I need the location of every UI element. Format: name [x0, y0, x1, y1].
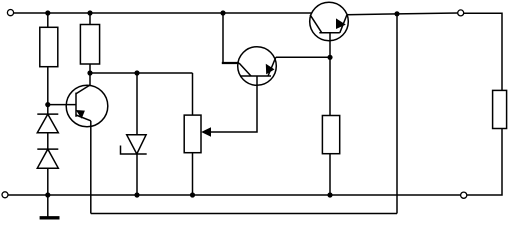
- wire R1 top lead: [47, 13, 49, 27]
- node zener top: [134, 70, 139, 75]
- wire R3 bottom lead: [192, 153, 194, 195]
- wire wiper to Q2 base: [207, 76, 257, 132]
- wire terminal to right edge: [464, 13, 502, 90]
- wire R2 bottom lead: [89, 64, 91, 73]
- wire feedback bottom horizontal: [91, 213, 397, 215]
- wire top rail left segment: [14, 12, 312, 14]
- wire R1 bottom lead: [47, 67, 49, 114]
- node feedback at top rail: [394, 11, 399, 16]
- Q2 base bar: [240, 75, 271, 77]
- wire reference node horizontal: [90, 72, 193, 74]
- wire zener bottom lead: [136, 154, 138, 195]
- Q3 emitter diagonal: [340, 15, 347, 33]
- resistor R1: [40, 27, 58, 66]
- node base of Q1 / R1 / diodes junction: [45, 102, 50, 107]
- terminal OUT- bottom-right: [461, 192, 467, 198]
- node Q2 emitter / Q3 base / R4: [327, 55, 332, 60]
- wire Q1 emitter down: [90, 121, 92, 214]
- diode D1 triangle: [37, 114, 58, 133]
- Q3 emitter arrow: [336, 18, 346, 29]
- wire Q2 collector to top rail: [223, 13, 239, 63]
- diode D2 triangle: [37, 149, 58, 168]
- resistor R2: [80, 25, 99, 65]
- wire D1 to D2: [47, 133, 49, 149]
- ground lead: [47, 195, 49, 217]
- terminal IN- bottom-left: [2, 192, 8, 198]
- wire Q1 collector: [89, 73, 91, 86]
- transistor Q2 body: [238, 47, 277, 86]
- transistor Q3 body: [310, 2, 349, 41]
- node Q2 collector at top rail: [220, 10, 225, 15]
- node R2 top junction: [87, 10, 92, 15]
- wire R4 bottom lead: [329, 154, 331, 195]
- wire Q1 base lead: [48, 104, 76, 106]
- wire zener top lead: [136, 73, 138, 135]
- zener D3 cathode bar with bent end: [121, 146, 147, 155]
- Q2 collector diagonal: [239, 63, 251, 76]
- Q2 base lead inside: [256, 76, 258, 86]
- transistor Q1 body: [66, 85, 108, 127]
- resistor R5 load: [493, 90, 507, 128]
- Q1 emitter diagonal: [76, 115, 91, 121]
- wire feedback vertical to top rail: [396, 14, 398, 214]
- resistor R4: [322, 116, 339, 154]
- Q3 collector diagonal: [310, 15, 322, 33]
- wire R3 top lead: [192, 73, 194, 115]
- node diode string at bus: [45, 192, 50, 197]
- node zener at bus: [134, 192, 139, 197]
- wire Q2 emitter to Q3 base: [276, 56, 330, 58]
- node R3 at bus: [190, 192, 195, 197]
- terminal IN+ top-left: [7, 10, 13, 16]
- wire bottom bus: [8, 194, 461, 196]
- potentiometer R3 body: [184, 115, 201, 153]
- Q2 emitter diagonal: [268, 57, 276, 76]
- wire Q3 base lead down to R4: [329, 33, 331, 116]
- wire R5 bottom to bottom-right terminal: [467, 129, 502, 196]
- ground bar: [40, 216, 60, 219]
- wire top rail right segment: [347, 13, 458, 15]
- Q1 collector diagonal: [76, 85, 90, 94]
- diode D1 cathode bar: [37, 113, 58, 115]
- wire R2 top lead: [89, 13, 91, 25]
- node R1 top junction: [45, 10, 50, 15]
- Q2 emitter arrow: [266, 64, 275, 75]
- R3 wiper arrow: [201, 127, 211, 137]
- node R2 / Q1 collector / reference rail: [87, 70, 92, 75]
- node R4 at bus: [327, 192, 332, 197]
- terminal OUT+ top-right: [458, 10, 464, 16]
- Q3 base bar: [319, 32, 340, 34]
- Q1 emitter arrow: [76, 110, 85, 119]
- zener D3 triangle: [127, 135, 146, 154]
- wire D2 to bottom bus: [47, 168, 49, 195]
- Q1 base bar: [75, 93, 77, 117]
- diode D2 cathode bar: [37, 148, 58, 150]
